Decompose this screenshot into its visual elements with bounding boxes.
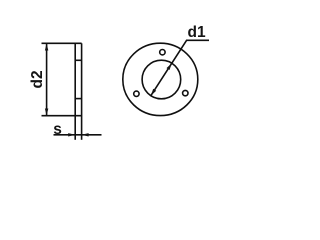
svg-text:d2: d2 [29,70,46,88]
svg-text:s: s [53,121,62,138]
svg-text:d1: d1 [188,24,206,41]
